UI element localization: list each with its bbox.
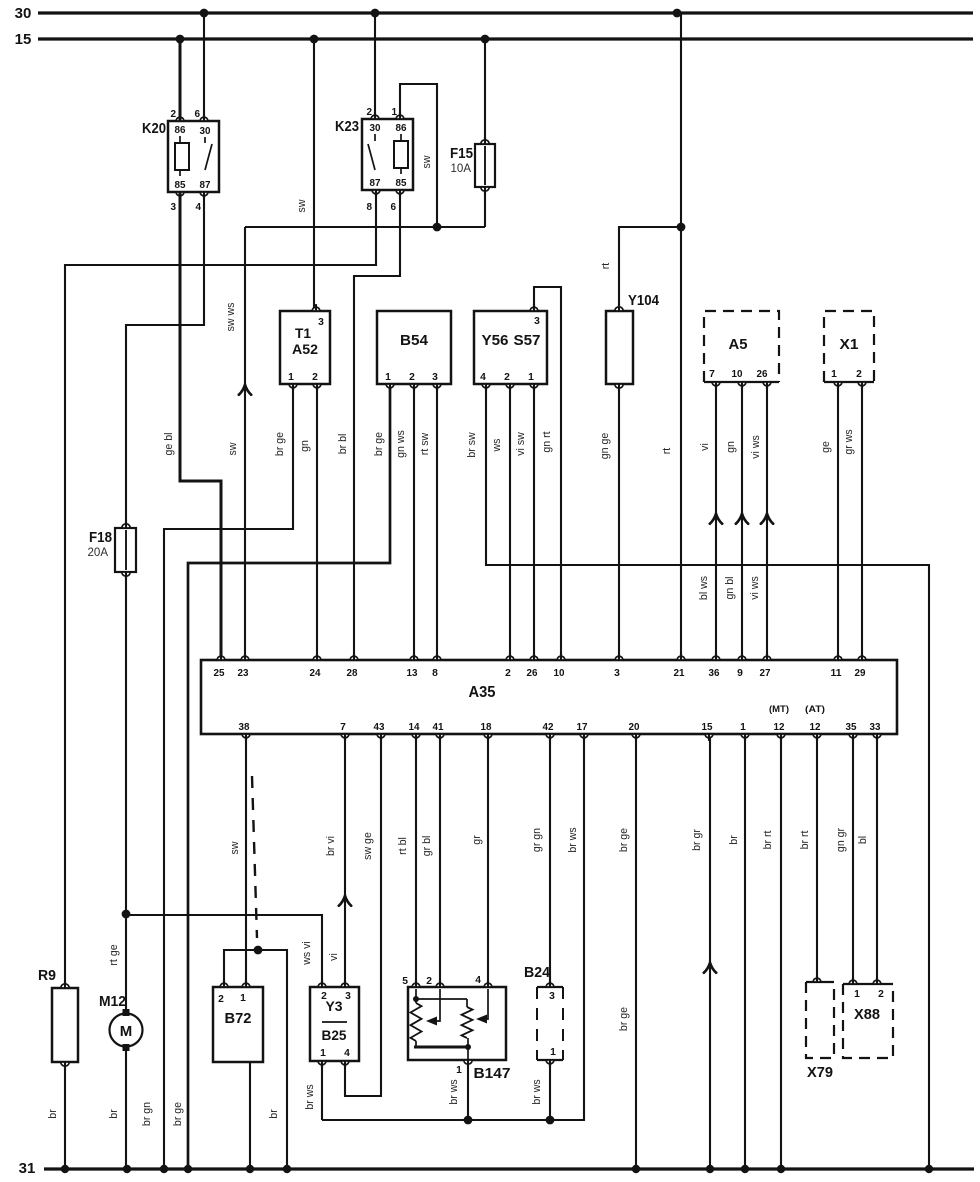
svg-text:8: 8 [432,668,438,679]
svg-text:br ws: br ws [531,1079,543,1104]
svg-text:3: 3 [318,317,324,328]
svg-text:A52: A52 [292,342,318,357]
svg-text:(MT): (MT) [769,704,789,714]
svg-text:gn ge: gn ge [599,433,611,460]
svg-text:3: 3 [345,991,351,1002]
svg-text:14: 14 [409,722,420,733]
svg-text:vi: vi [699,443,711,451]
svg-text:gn: gn [299,440,311,452]
svg-text:86: 86 [175,125,186,136]
svg-text:B147: B147 [474,1065,511,1082]
svg-text:vi sw: vi sw [515,432,527,456]
svg-text:2: 2 [878,989,884,1000]
svg-text:23: 23 [238,668,249,679]
svg-text:21: 21 [674,668,685,679]
svg-text:S57: S57 [514,332,541,349]
svg-text:2: 2 [505,668,511,679]
svg-text:(AT): (AT) [805,704,825,714]
svg-text:br gr: br gr [691,829,703,851]
svg-text:42: 42 [543,722,554,733]
svg-text:vi ws: vi ws [749,576,761,600]
svg-text:6: 6 [390,202,396,213]
svg-text:8: 8 [366,202,372,213]
svg-text:rt: rt [661,448,673,455]
svg-text:ws vi: ws vi [301,941,313,966]
svg-text:30: 30 [370,123,381,134]
svg-text:4: 4 [344,1048,350,1059]
svg-text:85: 85 [175,180,186,191]
svg-text:B72: B72 [225,1010,252,1027]
svg-text:43: 43 [374,722,385,733]
svg-text:A35: A35 [469,684,496,701]
svg-text:26: 26 [757,369,768,380]
svg-text:rt sw: rt sw [419,432,431,455]
svg-text:gn ws: gn ws [395,430,407,458]
svg-text:20A: 20A [88,547,109,559]
svg-text:1: 1 [740,722,746,733]
svg-text:33: 33 [870,722,881,733]
svg-text:29: 29 [855,668,866,679]
svg-text:4: 4 [480,372,486,383]
svg-text:B25: B25 [322,1027,347,1043]
svg-text:87: 87 [200,180,211,191]
svg-text:F15: F15 [450,145,473,162]
svg-text:2: 2 [426,976,432,987]
svg-text:sw: sw [229,841,241,854]
svg-text:sw ws: sw ws [225,303,237,332]
svg-text:2: 2 [504,372,510,383]
svg-text:br rt: br rt [762,831,774,850]
svg-text:2: 2 [856,369,862,380]
svg-text:3: 3 [614,668,620,679]
svg-text:27: 27 [760,668,771,679]
svg-text:3: 3 [170,202,176,213]
svg-text:bl ws: bl ws [698,576,710,600]
svg-text:1: 1 [288,372,294,383]
svg-text:gr: gr [471,835,483,845]
svg-text:br ge: br ge [373,432,385,456]
svg-text:R9: R9 [38,967,56,984]
svg-text:gn rt: gn rt [541,431,553,452]
svg-text:F18: F18 [89,529,112,546]
svg-text:vi ws: vi ws [750,435,762,459]
svg-text:6: 6 [194,109,200,120]
svg-text:K20: K20 [142,120,166,137]
svg-text:gn bl: gn bl [724,577,736,600]
svg-text:gn gr: gn gr [835,827,847,852]
svg-text:15: 15 [15,31,32,48]
svg-text:B24: B24 [524,964,551,981]
svg-text:1: 1 [385,372,391,383]
svg-text:7: 7 [340,722,346,733]
svg-text:35: 35 [846,722,857,733]
svg-text:M: M [120,1023,133,1040]
svg-text:11: 11 [831,668,842,679]
svg-text:br ge: br ge [618,1007,630,1031]
svg-text:X1: X1 [840,336,859,353]
svg-text:A5: A5 [729,336,748,353]
svg-text:1: 1 [854,989,860,1000]
svg-text:10A: 10A [451,163,472,175]
svg-text:20: 20 [629,722,640,733]
svg-text:2: 2 [218,994,224,1005]
svg-text:gn: gn [725,441,737,453]
svg-text:M12: M12 [99,993,126,1010]
svg-text:10: 10 [554,668,565,679]
svg-text:1: 1 [456,1065,462,1076]
svg-text:bl: bl [857,836,869,844]
svg-text:28: 28 [347,668,358,679]
svg-text:br rt: br rt [799,831,811,850]
svg-text:ge: ge [820,441,832,453]
svg-text:85: 85 [396,178,407,189]
svg-text:3: 3 [432,372,438,383]
svg-text:1: 1 [528,372,534,383]
svg-text:gr gn: gr gn [531,828,543,852]
svg-text:br gn: br gn [141,1102,153,1126]
svg-text:rt ge: rt ge [108,944,120,965]
svg-text:gr ws: gr ws [843,429,855,454]
svg-text:1: 1 [240,993,246,1004]
svg-text:br: br [108,1109,120,1119]
svg-text:15: 15 [702,722,713,733]
svg-text:36: 36 [709,668,720,679]
svg-text:26: 26 [527,668,538,679]
svg-text:3: 3 [549,991,555,1002]
svg-text:sw ge: sw ge [362,832,374,860]
svg-text:sw: sw [421,155,433,168]
svg-text:87: 87 [370,178,381,189]
svg-text:br: br [728,835,740,845]
svg-text:4: 4 [195,202,201,213]
svg-text:2: 2 [312,372,318,383]
svg-text:3: 3 [534,316,540,327]
svg-text:br ge: br ge [618,828,630,852]
svg-text:rt: rt [600,263,612,270]
svg-text:br: br [268,1109,280,1119]
svg-text:X79: X79 [807,1064,833,1081]
svg-text:br ws: br ws [304,1084,316,1109]
svg-text:18: 18 [481,722,492,733]
svg-text:12: 12 [774,722,785,733]
svg-text:1: 1 [550,1047,556,1058]
svg-text:25: 25 [214,668,225,679]
svg-text:K23: K23 [335,118,359,135]
svg-text:2: 2 [170,109,176,120]
svg-text:sw: sw [296,199,308,212]
svg-text:vi: vi [328,953,340,961]
svg-text:br bl: br bl [337,434,349,455]
svg-text:2: 2 [409,372,415,383]
svg-text:10: 10 [732,369,743,380]
svg-text:ge bl: ge bl [163,433,175,456]
svg-text:br ws: br ws [567,827,579,852]
svg-text:1: 1 [320,1048,326,1059]
svg-text:17: 17 [577,722,588,733]
svg-text:sw: sw [227,442,239,455]
svg-text:br ge: br ge [274,432,286,456]
svg-text:12: 12 [810,722,821,733]
svg-text:13: 13 [407,668,418,679]
svg-text:X88: X88 [854,1006,880,1023]
svg-text:4: 4 [475,975,481,986]
svg-text:B54: B54 [400,332,429,349]
svg-text:86: 86 [396,123,407,134]
svg-text:rt bl: rt bl [397,837,409,855]
svg-text:Y56: Y56 [482,332,509,349]
svg-text:9: 9 [737,668,743,679]
svg-text:38: 38 [239,722,250,733]
svg-text:Y104: Y104 [628,292,660,309]
svg-text:1: 1 [831,369,837,380]
svg-text:ws: ws [491,439,503,453]
svg-text:br vi: br vi [325,836,337,856]
svg-text:gr bl: gr bl [421,836,433,857]
svg-text:31: 31 [19,1160,36,1177]
svg-text:30: 30 [15,5,32,22]
svg-text:41: 41 [433,722,444,733]
svg-text:br: br [47,1109,59,1119]
svg-text:br ws: br ws [448,1079,460,1104]
svg-text:br sw: br sw [466,432,478,458]
svg-text:30: 30 [200,126,211,137]
svg-text:7: 7 [709,369,715,380]
svg-text:br ge: br ge [172,1102,184,1126]
svg-text:Y3: Y3 [326,998,343,1014]
svg-text:5: 5 [402,976,408,987]
svg-text:24: 24 [310,668,321,679]
svg-text:T1: T1 [295,326,311,341]
